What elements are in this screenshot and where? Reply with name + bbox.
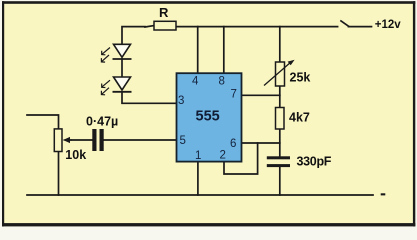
- wire capacitor C1 to pin5: [104, 139, 177, 141]
- wire capacitor C2 to ground rail: [279, 167, 281, 195]
- wire pot top stub: [27, 115, 59, 129]
- wire top rail to 25k: [279, 27, 281, 62]
- wire 25k to 4k7: [279, 86, 281, 108]
- resistor R2 4k7: [276, 108, 285, 130]
- svg-text:5: 5: [180, 135, 186, 147]
- wire LED1 to LED2: [121, 59, 123, 77]
- potentiometer VR2 10k: [54, 129, 62, 152]
- resistor R: [154, 21, 176, 30]
- svg-text:7: 7: [231, 88, 237, 100]
- potentiometer VR1 25k: [276, 62, 285, 86]
- capacitor C2 330pF: [267, 156, 290, 167]
- LED D1 arrows: [101, 48, 110, 63]
- wire jog before R: [145, 26, 154, 27]
- svg-text:4k7: 4k7: [289, 111, 310, 125]
- wire top-left corner to resistor R: [122, 27, 145, 45]
- wire pot wiper to capacitor C1: [66, 139, 92, 141]
- wire pin6: [242, 142, 280, 144]
- svg-text:10k: 10k: [65, 148, 86, 162]
- ground rail (bottom wire): [27, 194, 373, 196]
- capacitor C1 0.47u: [92, 129, 103, 151]
- svg-text:6: 6: [230, 138, 236, 150]
- wire switch to +12v label: [349, 26, 372, 28]
- wire pin2 jog to pin6 net: [224, 143, 258, 174]
- wire pin1 to ground rail: [197, 162, 199, 195]
- LED D2: [113, 77, 132, 92]
- frame border left: [2, 1, 4, 226]
- wire pin7: [242, 94, 280, 96]
- svg-text:1: 1: [195, 150, 201, 162]
- svg-text:R: R: [159, 5, 169, 20]
- svg-text:+12v: +12v: [375, 19, 402, 31]
- switch blade S1: [341, 21, 349, 26]
- svg-text:0·47µ: 0·47µ: [86, 114, 118, 128]
- LED D1: [113, 44, 132, 59]
- 25k wiper arrow: [264, 62, 291, 86]
- wire pot bottom to ground rail: [58, 152, 60, 196]
- svg-text:25k: 25k: [290, 71, 311, 85]
- wire 4k7 to capacitor C2: [279, 129, 281, 156]
- frame border top: [2, 1, 415, 4]
- svg-text:555: 555: [196, 109, 220, 125]
- LED D2 arrows: [101, 80, 110, 95]
- frame border bottom: [2, 223, 415, 226]
- svg-text:8: 8: [219, 76, 225, 88]
- svg-text:2: 2: [220, 150, 226, 162]
- frame border right: [413, 1, 415, 226]
- svg-text:4: 4: [192, 76, 199, 88]
- wire pin4 drop: [197, 27, 199, 73]
- wire pin8 drop: [223, 27, 225, 73]
- 10k wiper arrow: [64, 139, 73, 141]
- svg-text:3: 3: [178, 95, 184, 107]
- wire R to switch: [176, 26, 338, 28]
- IC U1 555: [177, 73, 242, 161]
- negative terminal dash: [381, 193, 386, 195]
- wire LED2 to pin3: [122, 92, 177, 103]
- svg-text:330pF: 330pF: [297, 155, 332, 169]
